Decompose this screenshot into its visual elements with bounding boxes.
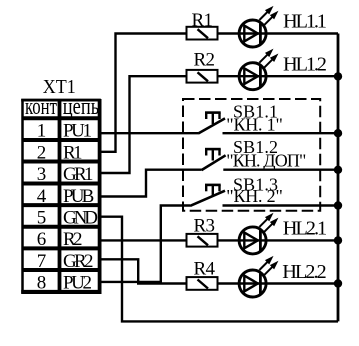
svg-text:GR1: GR1: [63, 164, 94, 185]
svg-text:"КН. 2": "КН. 2": [226, 186, 282, 206]
svg-text:1: 1: [37, 121, 47, 142]
svg-text:R2: R2: [194, 50, 216, 71]
svg-text:R4: R4: [194, 259, 216, 280]
svg-text:HL1.1: HL1.1: [283, 11, 327, 33]
svg-text:R1: R1: [192, 10, 214, 31]
svg-text:HL2.2: HL2.2: [282, 261, 327, 283]
svg-text:HL2.1: HL2.1: [283, 218, 328, 240]
svg-text:PUB: PUB: [63, 186, 94, 207]
svg-text:R1: R1: [63, 142, 83, 163]
svg-text:PU2: PU2: [63, 273, 92, 294]
svg-text:R2: R2: [63, 229, 83, 250]
svg-text:GR2: GR2: [63, 251, 94, 272]
svg-text:2: 2: [37, 142, 47, 163]
svg-text:7: 7: [37, 251, 47, 272]
svg-text:цепь: цепь: [63, 93, 99, 120]
svg-text:"КН. ДОП": "КН. ДОП": [226, 150, 306, 170]
svg-text:GND: GND: [63, 208, 98, 229]
svg-text:конт: конт: [25, 93, 57, 120]
svg-text:3: 3: [37, 164, 47, 185]
svg-text:4: 4: [37, 186, 47, 207]
svg-text:PU1: PU1: [63, 121, 92, 142]
svg-text:8: 8: [37, 273, 47, 294]
svg-text:HL1.2: HL1.2: [283, 54, 327, 76]
svg-text:"КН. 1": "КН. 1": [226, 115, 282, 135]
svg-text:5: 5: [37, 208, 47, 229]
svg-text:6: 6: [37, 229, 47, 250]
svg-text:R3: R3: [194, 215, 216, 236]
